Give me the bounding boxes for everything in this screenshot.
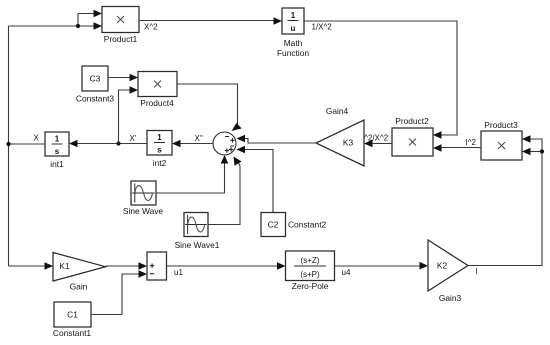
- svg-text:X: X: [34, 134, 40, 143]
- svg-text:I: I: [476, 267, 478, 276]
- product P3 (Product3): [481, 120, 522, 160]
- wire X' branch up to Product4 port2: [119, 86, 139, 143]
- svg-text:Sine Wave: Sine Wave: [123, 206, 164, 216]
- wire C3 to Product4 port1: [108, 74, 138, 82]
- svg-text:Constant3: Constant3: [76, 94, 115, 104]
- svg-text:Zero-Pole: Zero-Pole: [292, 281, 329, 291]
- wire Sum output to int2: [69, 140, 213, 148]
- product P4 (Product4): [138, 72, 177, 109]
- wire Product3 to Product2 port2: [433, 144, 481, 152]
- wire Zero-Pole to Gain3: [335, 262, 429, 270]
- svg-text:Product2: Product2: [395, 116, 429, 126]
- node junction right side: [540, 149, 544, 153]
- svg-text:X'': X'': [195, 134, 204, 143]
- svg-text:Gain: Gain: [70, 282, 88, 292]
- wire Gain to Sum2 port1: [106, 262, 148, 270]
- wire C2 up into Sum lower-right port: [237, 146, 274, 213]
- svg-text:1: 1: [157, 133, 162, 142]
- wire Sine Wave1 into Sum lower-diag port: [208, 157, 242, 225]
- gain G3 (Gain3 K2): [428, 240, 468, 303]
- svg-text:Sine Wave1: Sine Wave1: [175, 240, 220, 250]
- svg-text:1/X^2: 1/X^2: [312, 23, 333, 32]
- wire Sine Wave into Sum bottom port: [156, 155, 228, 193]
- svg-text:(s+Z): (s+Z): [301, 256, 320, 265]
- svg-text:X^2: X^2: [144, 23, 158, 32]
- constant C1: [53, 302, 92, 338]
- svg-text:Product1: Product1: [104, 34, 138, 44]
- svg-text:u: u: [291, 24, 296, 33]
- svg-text:Gain4: Gain4: [326, 106, 349, 116]
- product P1 (Product1): [102, 7, 139, 45]
- svg-text:1: 1: [55, 135, 60, 144]
- constant C3: [76, 66, 115, 104]
- constant C2: [261, 213, 327, 237]
- wire X trunk vertical: [8, 26, 10, 266]
- node junction at Product1 branch: [76, 24, 80, 28]
- integrator I1 (int1 1/s): [45, 132, 69, 169]
- svg-text:Function: Function: [277, 48, 309, 58]
- wire Product2 to Gain4: [364, 140, 392, 148]
- wire Sum2 to Zero-Pole: [167, 262, 286, 270]
- svg-text:(s+P): (s+P): [300, 270, 320, 279]
- svg-text:Product3: Product3: [484, 120, 518, 130]
- product P2 (Product2): [392, 116, 433, 156]
- node junction trunk/X: [6, 142, 10, 146]
- wire trunk to Gain input: [9, 262, 54, 270]
- svg-text:s: s: [55, 147, 60, 156]
- integrator I2 (int2 1/s): [147, 131, 172, 169]
- node junction X' branch: [116, 141, 120, 145]
- svg-text:s: s: [157, 146, 162, 155]
- svg-text:I^2: I^2: [466, 138, 477, 147]
- svg-text:C3: C3: [90, 74, 101, 84]
- svg-text:C2: C2: [268, 220, 279, 230]
- svg-text:C1: C1: [67, 310, 78, 320]
- svg-text:1: 1: [291, 11, 296, 20]
- gain G1 (Gain K1): [53, 253, 106, 292]
- svg-text:u1: u1: [174, 268, 183, 277]
- svg-text:I^2/X^2: I^2/X^2: [362, 134, 389, 143]
- sum S2 (rect Sum u1): [147, 252, 167, 280]
- svg-text:K3: K3: [343, 138, 354, 148]
- wire Gain3 output up right side into Product3 ports: [468, 135, 542, 265]
- math function U1 (Math Function 1/u): [277, 8, 309, 58]
- wire Product4 output down into Sum top port: [177, 84, 242, 131]
- svg-text:u4: u4: [342, 268, 351, 277]
- zero-pole ZP (Zero-Pole): [286, 251, 335, 291]
- svg-text:K2: K2: [437, 261, 448, 271]
- wire Math Function to Product2 port1: [304, 21, 457, 139]
- wire C1 to Sum2 port2: [91, 270, 147, 314]
- sum S1 (round Sum): [213, 132, 236, 155]
- sine source SW (Sine Wave): [123, 181, 164, 216]
- svg-text:Constant1: Constant1: [53, 328, 92, 338]
- svg-text:int2: int2: [153, 158, 167, 168]
- svg-text:Constant2: Constant2: [288, 220, 327, 230]
- gain G4 (Gain4 K3): [316, 106, 364, 166]
- wire int1 to trunk: [9, 143, 46, 145]
- svg-text:K1: K1: [59, 261, 70, 271]
- svg-text:Math: Math: [284, 38, 303, 48]
- svg-text:Gain3: Gain3: [439, 293, 462, 303]
- wire X to Product1 inputs: [9, 10, 103, 30]
- sine source SW1 (Sine Wave1): [175, 213, 220, 251]
- wire Gain4 to Sum: [237, 135, 317, 143]
- wire Product1 to Math Function: [139, 17, 282, 25]
- svg-text:X': X': [130, 134, 137, 143]
- svg-text:Product4: Product4: [140, 98, 174, 108]
- svg-text:int1: int1: [50, 159, 64, 169]
